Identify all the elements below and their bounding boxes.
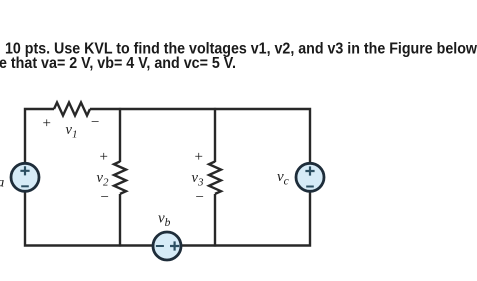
resistor v2 xyxy=(114,162,126,194)
wire: v2 branch lower xyxy=(119,194,121,247)
voltage source vc xyxy=(296,163,324,191)
svg-text:a: a xyxy=(0,176,4,191)
voltage source vb xyxy=(153,232,181,260)
svg-text:+: + xyxy=(195,149,203,165)
svg-text:−: − xyxy=(101,190,109,206)
svg-text:v1: v1 xyxy=(66,122,78,141)
resistor v1 xyxy=(54,103,90,116)
wire: top segment from resistor v1 to top-right corner and down to vc xyxy=(90,109,310,164)
voltage source va xyxy=(11,163,39,191)
wire: v2 branch upper xyxy=(119,108,121,162)
svg-text:−: − xyxy=(91,115,99,131)
svg-text:vc: vc xyxy=(277,169,289,188)
svg-text:−: − xyxy=(196,190,204,206)
wire: v3 branch lower xyxy=(214,194,216,247)
wire: left-lower + bottom-left segment (va- to vb-) xyxy=(25,191,153,246)
svg-text:+: + xyxy=(43,116,51,132)
svg-text:v3: v3 xyxy=(192,170,204,189)
wire: left-upper + top-left segment (node from va+ to resistor v1) xyxy=(25,109,54,164)
resistor v3 xyxy=(209,162,221,194)
svg-text:+: + xyxy=(100,149,108,165)
svg-text:v2: v2 xyxy=(97,170,109,189)
wire: v3 branch upper xyxy=(214,108,216,162)
svg-text:e that va= 2 V, vb= 4 V, and v: e that va= 2 V, vb= 4 V, and vc= 5 V. xyxy=(0,55,236,72)
svg-text:vb: vb xyxy=(158,211,171,230)
wire: bottom-right segment (vb+ to vc-) xyxy=(181,191,310,246)
